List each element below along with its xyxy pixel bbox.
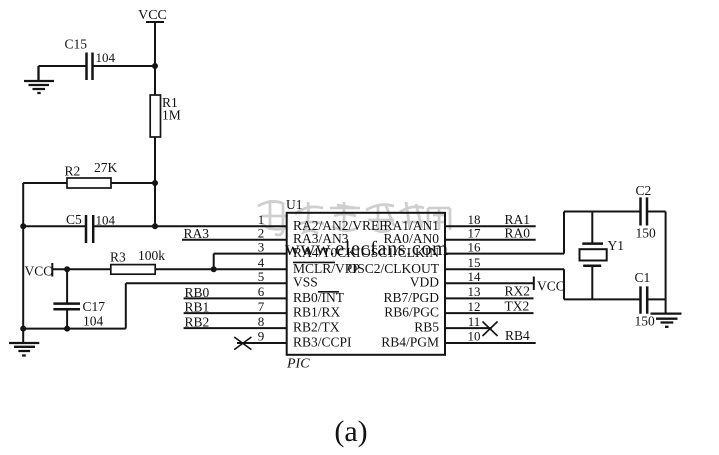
- svg-text:104: 104: [96, 213, 116, 228]
- svg-text:11: 11: [468, 314, 481, 329]
- svg-text:RA0: RA0: [505, 226, 531, 241]
- wire C17 bottom stub: [66, 309, 68, 328]
- svg-text:VSS: VSS: [293, 275, 318, 290]
- svg-text:C2: C2: [636, 183, 652, 198]
- capacitor C1: [635, 270, 656, 329]
- svg-text:150: 150: [636, 226, 657, 241]
- wire osc1 vertical: [563, 212, 565, 254]
- svg-text:Y1: Y1: [608, 238, 625, 253]
- wire pin 9: [237, 342, 287, 344]
- resistor R2: [65, 160, 118, 188]
- capacitor C5: [66, 212, 116, 243]
- wire pin 3: [214, 253, 287, 255]
- wire pin 11: [445, 327, 492, 329]
- wire pin3 corner vertical: [213, 254, 215, 270]
- wire R2 right: [111, 182, 155, 184]
- wire osc2 vertical: [563, 269, 565, 299]
- svg-text:14: 14: [468, 269, 482, 284]
- svg-text:PIC: PIC: [286, 357, 310, 372]
- svg-text:C15: C15: [65, 37, 88, 52]
- svg-text:R2: R2: [65, 164, 81, 179]
- power VCC top: [138, 8, 167, 23]
- svg-text:7: 7: [258, 299, 265, 314]
- wire bottom left of C1: [564, 298, 641, 300]
- no-connect X pin 11: [483, 322, 498, 337]
- power VCC right: [534, 277, 565, 294]
- wire VCC to R3: [52, 268, 111, 270]
- svg-text:RB5: RB5: [414, 320, 439, 335]
- svg-text:4: 4: [258, 255, 265, 270]
- wire bottom-left ground bus: [23, 328, 126, 330]
- svg-text:104: 104: [96, 50, 116, 65]
- wire C15 left to ground: [39, 65, 87, 67]
- power VCC left: [25, 263, 53, 278]
- wire pin 17: [445, 239, 536, 241]
- crystal Y1: [580, 238, 625, 266]
- wire pin 13: [445, 297, 534, 299]
- svg-text:6: 6: [258, 284, 265, 299]
- wire bottom right of C1: [647, 298, 665, 300]
- wire pin 12: [445, 312, 534, 314]
- node R1/R2 junction: [152, 180, 158, 186]
- node rail/bus junction: [20, 326, 26, 332]
- svg-text:RB2: RB2: [185, 314, 210, 329]
- pin numbers left: [258, 212, 265, 344]
- svg-text:C1: C1: [635, 270, 651, 285]
- svg-text:RB3/CCPI: RB3/CCPI: [293, 335, 352, 350]
- svg-text:8: 8: [258, 314, 265, 329]
- wire C5 right to pin 1: [93, 225, 287, 227]
- wire C17 top stub: [66, 269, 68, 303]
- wire pin 5 VSS: [126, 282, 287, 284]
- svg-text:RA0/AN0: RA0/AN0: [383, 231, 439, 246]
- wire pin5 corner vertical: [125, 283, 127, 328]
- svg-text:17: 17: [468, 225, 482, 240]
- svg-text:R3: R3: [110, 250, 126, 265]
- svg-text:15: 15: [468, 255, 481, 270]
- node C5 left junction: [20, 223, 26, 229]
- svg-text:RB7/PGD: RB7/PGD: [383, 290, 439, 305]
- no-connect X pin 9: [234, 337, 251, 350]
- svg-text:1M: 1M: [162, 108, 181, 123]
- wire top left of C2: [564, 211, 641, 213]
- svg-text:VCC: VCC: [537, 279, 565, 294]
- pin numbers right: [468, 212, 482, 344]
- capacitor C15: [65, 37, 116, 81]
- resistor R3: [110, 248, 165, 274]
- wire pin 7 RB1: [184, 312, 287, 314]
- watermark: [258, 200, 450, 235]
- IC U1 body fill: [287, 213, 445, 355]
- svg-text:3: 3: [258, 239, 265, 254]
- svg-text:C17: C17: [83, 299, 106, 314]
- node C17 top junction: [64, 266, 70, 272]
- wire crystal bottom stub: [591, 266, 593, 300]
- wire pin 18: [445, 225, 536, 227]
- ground (right): [651, 314, 682, 327]
- wire pin 2 RA3: [182, 239, 287, 241]
- wire C5 left: [23, 225, 86, 227]
- node C17 bottom junction: [64, 326, 70, 332]
- resistor R1: [150, 95, 181, 137]
- svg-text:OSC1/CLKIN: OSC1/CLKIN: [361, 245, 439, 260]
- svg-text:RB6/PGC: RB6/PGC: [384, 305, 439, 320]
- wire R3 right to pin 4: [155, 268, 287, 270]
- svg-text:VDD: VDD: [410, 275, 439, 290]
- ground (bottom left): [9, 343, 39, 356]
- svg-text:RA3/AN3: RA3/AN3: [293, 231, 349, 246]
- svg-text:27K: 27K: [94, 160, 118, 175]
- wire pin 10: [445, 342, 536, 344]
- svg-text:RX2: RX2: [505, 284, 531, 299]
- svg-text:TX2: TX2: [505, 299, 530, 314]
- wire VCC to node A: [154, 22, 156, 95]
- svg-text:10: 10: [468, 329, 481, 344]
- svg-text:VCC: VCC: [138, 8, 167, 23]
- svg-text:VCC: VCC: [25, 263, 53, 278]
- op IC U1 box: [287, 213, 445, 355]
- svg-text:2: 2: [258, 225, 265, 240]
- svg-text:13: 13: [468, 284, 481, 299]
- svg-text:RB4: RB4: [505, 328, 530, 343]
- wire right vertical to ground: [665, 212, 667, 314]
- wire pin 14: [445, 282, 534, 284]
- wire pin 16: [445, 253, 564, 255]
- svg-text:RA4/T0CKI: RA4/T0CKI: [293, 245, 361, 260]
- IC pin labels: [293, 218, 440, 350]
- svg-text:U1: U1: [286, 197, 303, 212]
- wire crystal top stub: [591, 212, 593, 244]
- node pin1 junction: [152, 223, 158, 229]
- svg-text:12: 12: [468, 299, 481, 314]
- capacitor C17: [53, 299, 105, 329]
- wire pin 15: [445, 268, 564, 270]
- node pin3/pin4 junction: [211, 266, 217, 272]
- wire top right of C2: [647, 211, 666, 213]
- ground (top left): [24, 66, 54, 93]
- svg-text:RB1/RX: RB1/RX: [293, 305, 341, 320]
- wire R1 bottom to C5 row: [154, 137, 156, 226]
- svg-text:C5: C5: [66, 212, 82, 227]
- wire R2 left: [23, 182, 67, 184]
- MCLR overline: [293, 261, 335, 263]
- svg-text:150: 150: [635, 314, 656, 329]
- wire C15 right to node A: [93, 65, 156, 67]
- svg-text:5: 5: [258, 269, 265, 284]
- capacitor C2: [636, 183, 657, 241]
- wire pin 6 RB0: [184, 297, 287, 299]
- svg-text:OSC2/CLKOUT: OSC2/CLKOUT: [347, 261, 439, 276]
- svg-text:(a): (a): [334, 415, 367, 448]
- node A junction: [152, 63, 158, 69]
- wire left rail: [22, 183, 24, 343]
- INT overline: [318, 291, 339, 293]
- svg-text:RB2/TX: RB2/TX: [293, 320, 340, 335]
- svg-text:104: 104: [83, 314, 104, 329]
- svg-text:9: 9: [258, 329, 265, 344]
- svg-text:16: 16: [468, 239, 482, 254]
- svg-text:100k: 100k: [138, 248, 165, 263]
- wire pin 8 RB2: [184, 327, 287, 329]
- svg-text:RB4/PGM: RB4/PGM: [381, 335, 439, 350]
